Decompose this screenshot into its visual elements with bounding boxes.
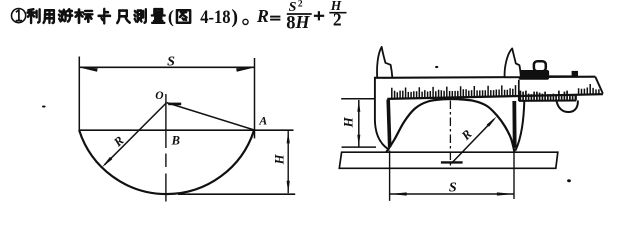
right diagram H extension line bottom (342, 146, 377, 148)
heading hanzi ka (99, 9, 110, 23)
left diagram vertical centerline through O and B (165, 94, 167, 202)
caliper vernier tick marks (520, 91, 575, 101)
left diagram center point O tick mark (168, 103, 181, 106)
heading hanzi you (59, 9, 72, 21)
left diagram radius line R with arrowhead (102, 103, 167, 168)
caliper slider vernier body (519, 80, 576, 101)
caliper fixed jaw inner edge thick (388, 100, 390, 148)
heading hanzi li (28, 9, 40, 23)
svg-text:8: 8 (286, 13, 295, 33)
heading hanzi chi (117, 11, 130, 23)
svg-text:S: S (167, 54, 175, 69)
heading CJK full stop (243, 19, 248, 24)
svg-text:H: H (295, 12, 311, 32)
scan speck left margin (42, 106, 46, 108)
caliper slider thumb screw (534, 61, 546, 71)
right diagram S extension line right (513, 151, 515, 200)
svg-text:(: ( (168, 6, 174, 27)
svg-text:4-18: 4-18 (200, 7, 230, 28)
right diagram dimension line S with arrows (390, 192, 514, 195)
svg-text:A: A (258, 113, 267, 127)
left diagram radius line O to A (167, 103, 255, 130)
dome vertical centerline dash-dot (449, 101, 451, 167)
caliper movable jaw (514, 101, 524, 151)
svg-text:H: H (340, 116, 355, 128)
formula plus sign (314, 11, 324, 20)
svg-text:R: R (256, 6, 269, 26)
dome radius line R with arrowhead (451, 116, 497, 163)
caliper main scale tick marks (392, 85, 516, 99)
heading circled numeral 1 (12, 9, 26, 23)
left diagram dimension line H with arrows (287, 131, 290, 193)
svg-text:2: 2 (298, 0, 303, 10)
caliper main beam bottom edge (387, 94, 603, 99)
caliper slider upper horn (505, 48, 521, 77)
caliper slider lower hook (557, 100, 578, 112)
right diagram H extension line top (341, 98, 374, 100)
caliper fixed jaw upper horn (377, 47, 392, 78)
caliper main scale tick marks right end (579, 84, 599, 95)
heading hanzi ce (134, 9, 145, 22)
caliper main beam top edge (374, 77, 595, 78)
formula equals sign (270, 17, 280, 20)
left diagram extension line right (254, 58, 256, 138)
heading hanzi liang (152, 9, 165, 23)
formula fraction bar 2 (329, 12, 346, 14)
right diagram S extension line left (389, 151, 391, 201)
svg-text:R: R (110, 133, 126, 150)
workpiece base plate (339, 152, 558, 168)
right diagram dimension line H with arrows (357, 100, 360, 147)
caliper slider top plate (519, 70, 550, 80)
workpiece dome arc (386, 99, 514, 152)
formula fraction bar 1 (287, 13, 312, 15)
left diagram bottom extension line tangent to arc (178, 193, 295, 195)
dome center horizontal dash mark (441, 161, 463, 163)
svg-text:2: 2 (333, 9, 342, 29)
heading hanzi biao (76, 9, 93, 23)
heading hanzi tu (177, 10, 190, 22)
svg-text:H: H (272, 153, 286, 165)
svg-text:): ) (231, 6, 238, 28)
left diagram extension line left (78, 57, 80, 131)
caliper depth rod line and end block (549, 71, 578, 78)
scan speck near base right (567, 179, 571, 182)
heading hanzi yong (44, 10, 54, 23)
scan speck above beam (435, 66, 438, 68)
left diagram circular arc segment (79, 130, 254, 194)
left diagram dimension line S (79, 67, 254, 71)
svg-text:S: S (449, 180, 457, 195)
svg-text:B: B (171, 134, 180, 148)
caliper fixed jaw outer edge (375, 78, 389, 150)
caliper main beam right end bevel (595, 77, 603, 94)
svg-text:O: O (155, 90, 163, 102)
left diagram chord line through A (79, 129, 293, 131)
